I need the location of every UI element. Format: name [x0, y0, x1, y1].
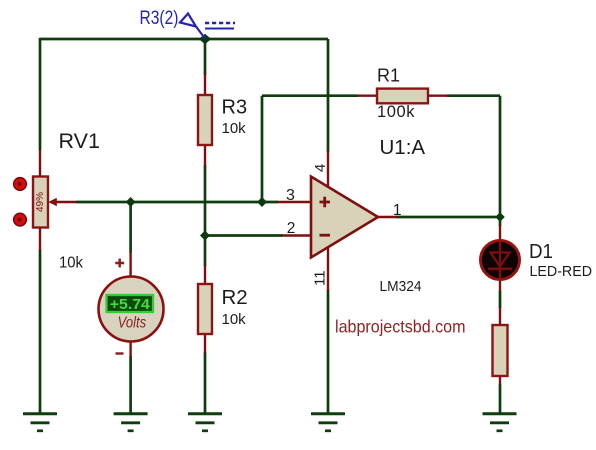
svg-text:LM324: LM324: [380, 278, 422, 295]
pin number 3: [286, 187, 295, 204]
svg-text:1: 1: [393, 202, 402, 219]
svg-text:R3(2): R3(2): [140, 8, 179, 29]
pin R3 top (red): [204, 74, 206, 96]
op-amp minus symbol: [320, 234, 331, 237]
wire top horizontal from RV1 top to op-amp pin4 column: [40, 38, 328, 41]
RV1 terminal dot bottom: [14, 213, 27, 226]
pin voltmeter bottom (red): [129, 340, 131, 357]
resistor R3 body: [198, 95, 212, 145]
pin number 11 (rotated): [312, 270, 329, 286]
pin op-amp 2 input (red): [282, 234, 311, 236]
pin R3 bottom (red): [204, 144, 206, 166]
op-amp plus symbol: [320, 197, 331, 207]
pin op-amp 11 power (red): [327, 246, 329, 291]
voltmeter Volts label: [118, 314, 147, 331]
svg-text:R3: R3: [222, 96, 248, 118]
pin R1 left (red): [357, 94, 378, 96]
label D1: [529, 240, 553, 263]
voltmeter body: [99, 277, 164, 342]
svg-text:LED-RED: LED-RED: [530, 264, 593, 280]
label RV1: [59, 129, 100, 153]
pin R2 bottom (red): [204, 334, 206, 353]
pin op-amp 3 input (red): [277, 201, 311, 203]
value LED-RED: [530, 264, 593, 280]
wire left vertical from top wire down to RV1: [39, 38, 42, 150]
RV1 wiper arrow: [48, 198, 76, 206]
label R2: [222, 286, 248, 309]
pin R2 top (red): [204, 265, 206, 285]
value 100k (R1): [377, 103, 415, 121]
ground 3 (R2): [188, 414, 222, 431]
pin LED top (red): [499, 225, 501, 241]
svg-text:+5.74: +5.74: [110, 296, 151, 313]
wire R2 bottom to ground: [204, 352, 207, 414]
LED D1 diode symbol: [488, 241, 512, 279]
svg-text:10k: 10k: [59, 255, 84, 272]
label U1:A: [380, 136, 426, 159]
probe R3(2) flag: [180, 14, 205, 39]
value 10k (RV1): [59, 255, 84, 272]
potentiometer RV1 body: [33, 177, 48, 228]
wire wiper node A horizontal to op-amp pin3: [76, 201, 278, 204]
pin RV1 top (red): [39, 150, 41, 177]
svg-text:2: 2: [287, 220, 296, 237]
wire R3 bottom to node B: [204, 165, 207, 266]
ground 1 (RV1): [23, 414, 57, 431]
pin number 2: [287, 220, 296, 237]
voltmeter minus terminal mark: [116, 352, 124, 354]
op-amp U1 triangle: [311, 177, 378, 258]
resistor R2 body: [198, 284, 212, 334]
wire RV1 bottom to ground: [39, 250, 42, 414]
wire feedback vertical from node C up: [261, 96, 264, 202]
wire voltmeter top drop: [129, 202, 132, 253]
wire node D to LED anode: [499, 217, 502, 226]
probe label R3(2): [140, 8, 179, 29]
wire op-amp pin4 from top wire: [327, 39, 330, 152]
wire LED to R4: [499, 291, 502, 308]
pin R1 right (red): [427, 94, 448, 96]
value LM324: [380, 278, 422, 295]
voltmeter plus terminal mark: [115, 259, 124, 268]
probe dashed value line: [205, 23, 235, 29]
svg-text:49%: 49%: [35, 192, 46, 212]
svg-text:R1: R1: [377, 66, 400, 86]
value 10k (R2): [222, 311, 247, 328]
pin R4 top (red): [499, 307, 501, 326]
svg-text:10k: 10k: [222, 311, 247, 328]
wire R1 right to output column: [447, 94, 500, 97]
wire feedback horizontal to R1 left: [262, 94, 358, 97]
junction node R3 top (probe node): [199, 34, 211, 44]
svg-text:RV1: RV1: [59, 129, 100, 153]
resistor R1 body: [377, 89, 428, 104]
junction node D (output / LED): [495, 212, 505, 222]
junction node C (feedback / pin3): [257, 197, 267, 207]
svg-text:D1: D1: [529, 240, 553, 263]
wire op-amp pin11 to ground: [327, 290, 330, 414]
svg-text:11: 11: [312, 270, 329, 286]
pin LED bottom (red): [499, 279, 501, 292]
ground 2 (voltmeter): [114, 414, 148, 431]
RV1 terminal dot top: [14, 178, 27, 191]
label R1: [377, 66, 400, 86]
svg-text:4: 4: [312, 164, 329, 172]
pin RV1 bottom (red): [39, 227, 41, 251]
label R3: [222, 96, 248, 118]
wire R3 top from node: [204, 39, 207, 75]
junction node B (R3/R2 / pin2): [200, 231, 210, 241]
wire op-amp output to node D: [396, 216, 500, 219]
svg-text:Volts: Volts: [118, 314, 147, 331]
junction node A (wiper / voltmeter): [126, 197, 136, 207]
svg-text:3: 3: [286, 187, 295, 204]
svg-text:U1:A: U1:A: [380, 136, 426, 159]
voltmeter LCD display: [107, 295, 154, 313]
wire output column vertical down to node D: [499, 96, 502, 217]
pin voltmeter top (red): [129, 252, 131, 278]
ground 4 (op-amp pin11): [311, 414, 345, 431]
pin number 1: [393, 202, 402, 219]
RV1 49% label (rotated): [35, 192, 46, 212]
resistor R4 body (unlabelled, below LED): [493, 325, 508, 376]
pin R4 bottom (red): [499, 375, 501, 385]
svg-text:R2: R2: [222, 286, 248, 309]
pin number 4 (rotated): [312, 164, 329, 172]
wire resistor R4 bottom to ground: [499, 384, 502, 414]
ground 5 (R4): [483, 414, 517, 431]
value 10k (R3): [222, 120, 247, 137]
wire voltmeter bottom to ground: [129, 356, 132, 414]
svg-text:labprojectsbd.com: labprojectsbd.com: [335, 316, 466, 336]
pin op-amp 4 power (red): [327, 151, 329, 188]
watermark labprojectsbd.com: [335, 316, 466, 336]
wire node B horizontal to op-amp pin2: [205, 234, 283, 237]
pin op-amp 1 output (red): [377, 216, 397, 218]
svg-text:100k: 100k: [377, 103, 415, 121]
LED D1 body: [481, 241, 520, 280]
svg-text:10k: 10k: [222, 120, 247, 137]
